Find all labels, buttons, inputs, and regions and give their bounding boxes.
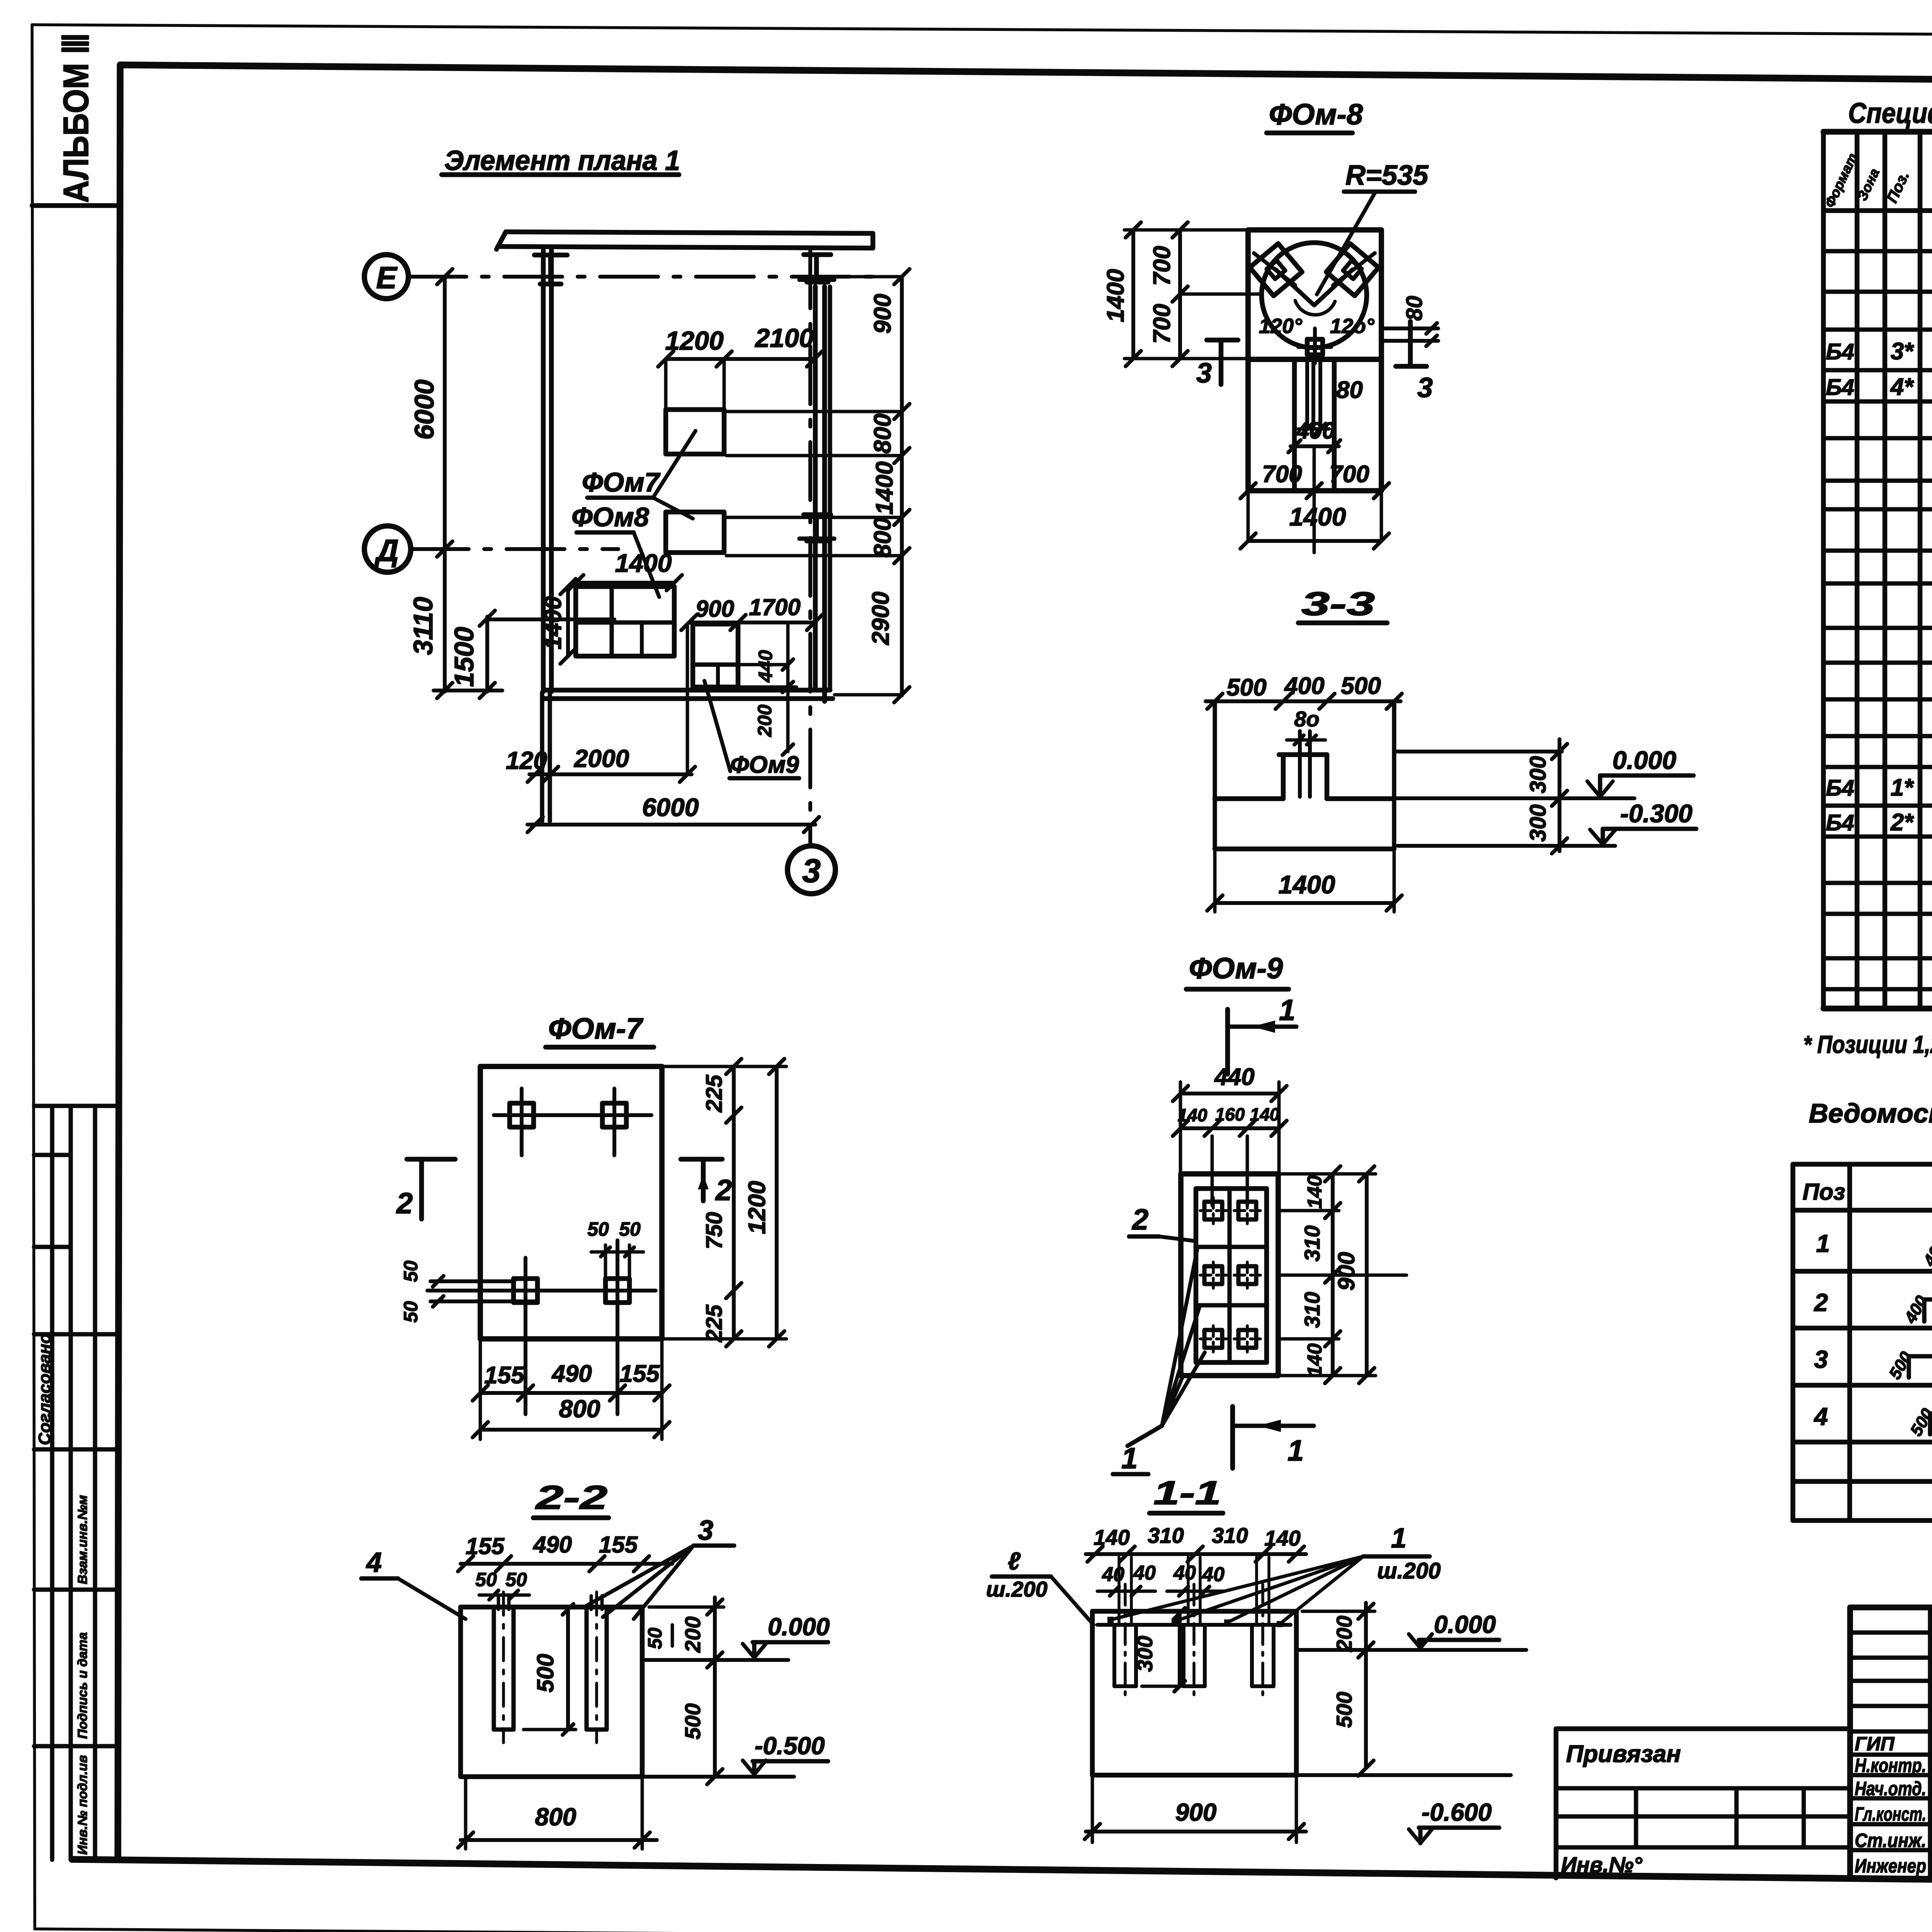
section mark 3 right	[1408, 321, 1413, 366]
FOm-8 upper square	[1248, 230, 1381, 359]
2-2 dowels	[492, 1607, 496, 1730]
svg-text:140: 140	[1304, 1344, 1326, 1377]
svg-text:1: 1	[1287, 1434, 1304, 1467]
svg-text:900: 900	[1175, 1798, 1217, 1826]
svg-text:440: 440	[1214, 1064, 1254, 1090]
svg-text:Б4: Б4	[1826, 339, 1854, 364]
axis circle 3	[787, 846, 835, 894]
svg-text:80: 80	[1402, 296, 1427, 321]
svg-text:8o: 8o	[1294, 707, 1319, 731]
foundation FOm7 rect 1	[666, 410, 724, 454]
svg-text:6000: 6000	[642, 793, 699, 821]
foundation FOm7 rect 2	[666, 512, 724, 553]
svg-text:800: 800	[869, 517, 896, 557]
svg-text:Инженер: Инженер	[1855, 1855, 1926, 1877]
svg-text:80: 80	[1336, 377, 1363, 403]
svg-text:ФОм7: ФОм7	[582, 467, 661, 497]
bottom tie line of chains	[434, 689, 502, 692]
dim 1400 above FOm8 pad	[576, 581, 674, 585]
dim 1200 / 2100 above FOm7	[666, 357, 815, 361]
svg-text:Н.контр.: Н.контр.	[1855, 1755, 1926, 1776]
anchor circle	[1262, 243, 1367, 348]
svg-text:40: 40	[1173, 1562, 1196, 1584]
svg-text:200: 200	[754, 704, 776, 737]
svg-text:Инв.№ подл.ив: Инв.№ подл.ив	[75, 1755, 90, 1855]
1-1 dowels 3 groups	[1112, 1625, 1116, 1686]
I-column top right	[804, 252, 831, 257]
svg-text:120°: 120°	[1259, 315, 1302, 338]
FOm-7 body	[480, 1066, 662, 1339]
svg-text:310: 310	[1300, 1292, 1324, 1328]
svg-text:1700: 1700	[749, 594, 800, 620]
spec table grid	[1821, 132, 1826, 1009]
svg-text:2-2: 2-2	[535, 1479, 607, 1516]
arc under center	[1295, 301, 1335, 315]
svg-text:-0.600: -0.600	[1422, 1798, 1492, 1826]
dim 1500 chain	[485, 617, 489, 692]
2-2 dim 500 dowel depth	[566, 1607, 570, 1730]
pedestal strip below	[1292, 359, 1297, 491]
svg-text:1: 1	[1391, 1523, 1406, 1554]
svg-text:-0.500: -0.500	[755, 1732, 825, 1760]
rotated anchor plate right	[1326, 243, 1378, 296]
privyazan box	[1556, 1726, 1850, 1731]
svg-text:310: 310	[1148, 1523, 1184, 1548]
dim 120 / 2000	[529, 772, 692, 776]
dim 1400 left of FOm8 pad	[566, 587, 570, 656]
svg-text:225: 225	[702, 1075, 727, 1113]
vedomost detaley table	[1791, 1164, 1796, 1520]
svg-text:Гл.конст.: Гл.конст.	[1855, 1803, 1926, 1825]
FOm-7 right chain 225/750/225	[732, 1066, 736, 1339]
svg-text:500: 500	[532, 1654, 558, 1692]
title block outer	[1850, 1605, 1932, 1611]
dim 700 700	[1248, 489, 1381, 493]
axis circle Д	[364, 526, 411, 572]
FOm-9 right chain 140/310/310/140	[1331, 1174, 1335, 1376]
svg-text:1200: 1200	[665, 326, 723, 355]
svg-text:2: 2	[396, 1187, 413, 1220]
bottom-left square tail lines	[430, 1279, 514, 1283]
FOm-7 anchor squares	[510, 1103, 534, 1127]
svg-text:ФОм-9: ФОм-9	[1189, 952, 1283, 985]
svg-text:АЛЬБОМ Ⅲ: АЛЬБОМ Ⅲ	[56, 33, 96, 203]
svg-text:Привязан: Привязан	[1566, 1741, 1681, 1767]
svg-text:3: 3	[698, 1515, 713, 1546]
svg-text:Поз: Поз	[1803, 1179, 1845, 1205]
vertical dim chain 6000/3110	[443, 277, 447, 692]
svg-text:225: 225	[702, 1304, 727, 1343]
svg-text:Элемент плана 1: Элемент плана 1	[444, 145, 680, 176]
svg-text:200: 200	[1332, 1616, 1356, 1652]
svg-text:ш.200: ш.200	[1377, 1558, 1440, 1583]
bottom wall double line	[543, 688, 830, 693]
svg-text:900: 900	[869, 294, 896, 333]
svg-text:Ст.инж.: Ст.инж.	[1855, 1830, 1926, 1851]
top beam double line	[506, 232, 873, 233]
svg-text:155: 155	[466, 1533, 505, 1559]
svg-text:1400: 1400	[1289, 502, 1346, 531]
svg-text:3: 3	[1417, 372, 1433, 403]
svg-text:140: 140	[1178, 1105, 1207, 1125]
svg-text:Согласовано: Согласовано	[35, 1333, 54, 1445]
svg-text:40: 40	[1202, 1563, 1225, 1586]
svg-text:490: 490	[533, 1532, 572, 1558]
3-3 top dim 500 400 500	[1206, 699, 1401, 703]
svg-text:490: 490	[551, 1361, 592, 1387]
svg-text:1: 1	[1121, 1442, 1138, 1475]
FOm-9 chain 900	[1365, 1174, 1369, 1376]
svg-text:800: 800	[559, 1395, 600, 1423]
svg-text:50: 50	[619, 1218, 641, 1240]
FOm-7 bottom dims 155/490/155	[480, 1391, 662, 1395]
2-2 top dim 155/490/155	[461, 1562, 672, 1566]
svg-text:Д: Д	[374, 533, 399, 568]
svg-text:Нач.отд.: Нач.отд.	[1855, 1778, 1926, 1799]
section mark 1 top	[1225, 1009, 1230, 1074]
svg-text:800: 800	[535, 1803, 577, 1831]
dim 400	[1291, 444, 1339, 448]
callout 1 fan	[1128, 1426, 1162, 1446]
svg-text:3: 3	[1196, 358, 1212, 389]
left margin signature strip	[34, 1104, 118, 1108]
1-1 dim 900	[1086, 1830, 1306, 1833]
svg-text:50: 50	[475, 1569, 497, 1590]
svg-text:Б4: Б4	[1826, 810, 1854, 835]
svg-text:300: 300	[1526, 756, 1551, 794]
svg-text:ФОм-8: ФОм-8	[1269, 98, 1363, 131]
svg-text:* Позиции 1,2,3,4 - см. Ведом: * Позиции 1,2,3,4 - см. Ведомость детале…	[1803, 1031, 1932, 1058]
centerline extensions	[1211, 1136, 1214, 1206]
wall extension below plan	[540, 692, 544, 821]
svg-text:400: 400	[1296, 418, 1335, 444]
svg-text:3110: 3110	[408, 597, 438, 655]
svg-text:ℓ: ℓ	[1008, 1547, 1021, 1575]
3-3 profile	[1213, 701, 1217, 849]
FOm-9 body	[1181, 1174, 1278, 1376]
svg-text:2900: 2900	[867, 592, 894, 645]
I-column at wall top left	[534, 253, 567, 258]
svg-text:3: 3	[802, 852, 821, 889]
svg-text:500: 500	[680, 1703, 705, 1739]
dim 80 right side	[1381, 327, 1438, 330]
foundation FOm9 rect	[693, 624, 738, 687]
chain 900 top segment	[900, 277, 904, 412]
svg-text:-0.300: -0.300	[1620, 799, 1692, 828]
svg-text:160: 160	[1215, 1104, 1245, 1124]
2-2 dim 800	[461, 1838, 657, 1842]
2-2 right chain	[713, 1597, 717, 1777]
svg-text:Е: Е	[376, 260, 398, 295]
svg-text:Б4: Б4	[1826, 375, 1854, 400]
left wall double line	[541, 250, 546, 692]
FOm-9 dim 440	[1180, 1092, 1279, 1095]
3-3 bottom dim 1400	[1215, 901, 1394, 905]
svg-text:2: 2	[715, 1174, 732, 1207]
svg-text:300: 300	[1526, 804, 1551, 842]
svg-text:200: 200	[680, 1616, 705, 1653]
2-2 body	[461, 1607, 642, 1777]
dim 900 / 1700	[689, 621, 815, 624]
svg-text:1400: 1400	[615, 549, 672, 577]
svg-text:500: 500	[1332, 1692, 1356, 1728]
svg-text:310: 310	[1212, 1523, 1248, 1548]
svg-text:50: 50	[587, 1218, 609, 1240]
svg-text:900: 900	[1333, 1252, 1359, 1291]
1-1 right chain	[1364, 1603, 1368, 1768]
left dim chains FOm8	[1131, 230, 1135, 359]
svg-text:40: 40	[1102, 1563, 1124, 1586]
svg-text:ш.200: ш.200	[986, 1577, 1048, 1601]
3-3 level lines right	[1394, 750, 1562, 753]
svg-text:140: 140	[1304, 1175, 1326, 1209]
svg-text:40: 40	[1133, 1562, 1156, 1584]
right wall double line	[813, 287, 818, 690]
svg-text:155: 155	[484, 1362, 525, 1389]
dim 1400 bottom	[1248, 539, 1381, 543]
outer thin paper frame	[32, 25, 1932, 38]
svg-text:1500: 1500	[449, 627, 479, 687]
svg-text:140: 140	[1094, 1525, 1129, 1549]
dim 6000 bottom	[527, 823, 815, 827]
FOm-8 lower square	[1248, 359, 1381, 491]
right dim chain of plan	[900, 402, 904, 696]
1-1 dim 300	[1178, 1611, 1182, 1686]
svg-text:Ведомость деталей: Ведомость деталей	[1809, 1098, 1932, 1128]
svg-text:500: 500	[1341, 673, 1381, 699]
svg-text:3-3: 3-3	[1301, 585, 1375, 622]
svg-text:700: 700	[1149, 246, 1175, 286]
signature grid	[1928, 1607, 1932, 1876]
svg-text:300: 300	[1133, 1636, 1157, 1672]
FOm-7 dim 800	[480, 1428, 662, 1432]
svg-text:ФОм9: ФОм9	[730, 752, 799, 778]
main border frame (thick)	[120, 65, 1932, 85]
svg-text:2: 2	[1131, 1203, 1148, 1236]
svg-text:750: 750	[702, 1212, 727, 1250]
svg-text:1400: 1400	[1279, 870, 1335, 899]
rotated anchor plate left	[1250, 243, 1302, 296]
FOm-9 anchor squares	[1204, 1202, 1222, 1219]
svg-text:700: 700	[1149, 304, 1175, 344]
I-column right mid (axis Д)	[804, 512, 831, 517]
small dim 440	[786, 624, 790, 752]
svg-text:140: 140	[1264, 1526, 1300, 1550]
FOm8 pad square	[576, 587, 674, 656]
album label box	[32, 203, 120, 208]
svg-text:120: 120	[506, 747, 547, 774]
FOm-9 dim 140 160 140	[1180, 1126, 1279, 1130]
svg-text:310: 310	[1300, 1225, 1324, 1261]
svg-text:50: 50	[400, 1260, 422, 1282]
1-1 body	[1092, 1611, 1296, 1775]
FOm-9 inner rect	[1196, 1189, 1267, 1362]
svg-text:1-1: 1-1	[1153, 1475, 1221, 1512]
svg-text:ГИП: ГИП	[1855, 1733, 1895, 1755]
svg-text:4*: 4*	[1890, 374, 1914, 400]
svg-text:800: 800	[869, 413, 896, 453]
svg-text:Взам.инв.№м: Взам.инв.№м	[75, 1495, 90, 1584]
section mark 1 bottom	[1230, 1406, 1235, 1468]
svg-text:1200: 1200	[744, 1181, 770, 1234]
svg-text:2100: 2100	[754, 323, 813, 353]
svg-text:2*: 2*	[1890, 809, 1914, 836]
central anchor square	[1307, 339, 1323, 355]
svg-text:3*: 3*	[1891, 338, 1914, 365]
svg-text:0.000: 0.000	[1434, 1611, 1496, 1638]
axis Д dash-dot line	[411, 547, 618, 551]
svg-text:700: 700	[1262, 461, 1302, 488]
axis circle E	[364, 255, 408, 299]
svg-text:140: 140	[1250, 1104, 1280, 1124]
axis 3 vertical dash-dot	[808, 250, 812, 845]
svg-text:2000: 2000	[574, 745, 629, 772]
svg-text:Подпись и дата: Подпись и дата	[75, 1632, 90, 1739]
svg-text:Инв.№°: Инв.№°	[1561, 1852, 1643, 1877]
axis E dash-dot line	[408, 275, 874, 279]
section mark 3 left	[1219, 340, 1224, 384]
svg-text:1: 1	[1279, 994, 1295, 1027]
section mark 2 right	[681, 1157, 722, 1162]
svg-text:3: 3	[1814, 1345, 1828, 1373]
svg-text:1: 1	[1816, 1230, 1830, 1257]
svg-text:50: 50	[644, 1628, 666, 1649]
svg-text:440: 440	[755, 650, 776, 683]
legs to plates	[1276, 270, 1314, 305]
svg-text:4: 4	[1813, 1403, 1828, 1430]
svg-text:R=535: R=535	[1345, 160, 1429, 191]
svg-text:ФОм8: ФОм8	[571, 502, 649, 532]
svg-text:1400: 1400	[1102, 269, 1129, 322]
1-1 top dims 140/310/310/140	[1086, 1552, 1306, 1556]
svg-text:50: 50	[505, 1569, 527, 1590]
svg-text:2: 2	[1814, 1289, 1828, 1316]
section mark 2 left	[407, 1157, 455, 1162]
svg-text:Б4: Б4	[1826, 776, 1854, 801]
svg-text:400: 400	[1284, 673, 1324, 699]
svg-text:1*: 1*	[1891, 774, 1914, 801]
svg-text:6000: 6000	[409, 379, 439, 440]
FOm-7 chain 1200	[775, 1066, 779, 1339]
50 50 dim above bottom-right square	[604, 1245, 607, 1277]
svg-text:50: 50	[400, 1301, 422, 1323]
3-3 rebar pins	[1298, 731, 1302, 797]
svg-text:ФОм-7: ФОм-7	[548, 1012, 644, 1045]
svg-text:1400: 1400	[540, 596, 566, 650]
svg-text:0.000: 0.000	[1612, 746, 1676, 774]
svg-text:900: 900	[696, 596, 734, 622]
svg-text:700: 700	[1329, 461, 1369, 488]
svg-text:12o°: 12o°	[1330, 315, 1374, 338]
square centerlines	[494, 1113, 651, 1117]
svg-text:1400: 1400	[871, 461, 898, 515]
svg-text:0.000: 0.000	[768, 1613, 830, 1641]
svg-text:Спецификация фундаментов ФО: Спецификация фундаментов ФОм-7,ФОм-8,ФОм…	[1848, 97, 1932, 129]
svg-text:500: 500	[1226, 674, 1266, 701]
svg-text:155: 155	[619, 1361, 660, 1387]
3-3 dim chain 300 300	[1558, 739, 1561, 851]
svg-text:4: 4	[366, 1547, 382, 1578]
svg-text:155: 155	[599, 1532, 638, 1558]
